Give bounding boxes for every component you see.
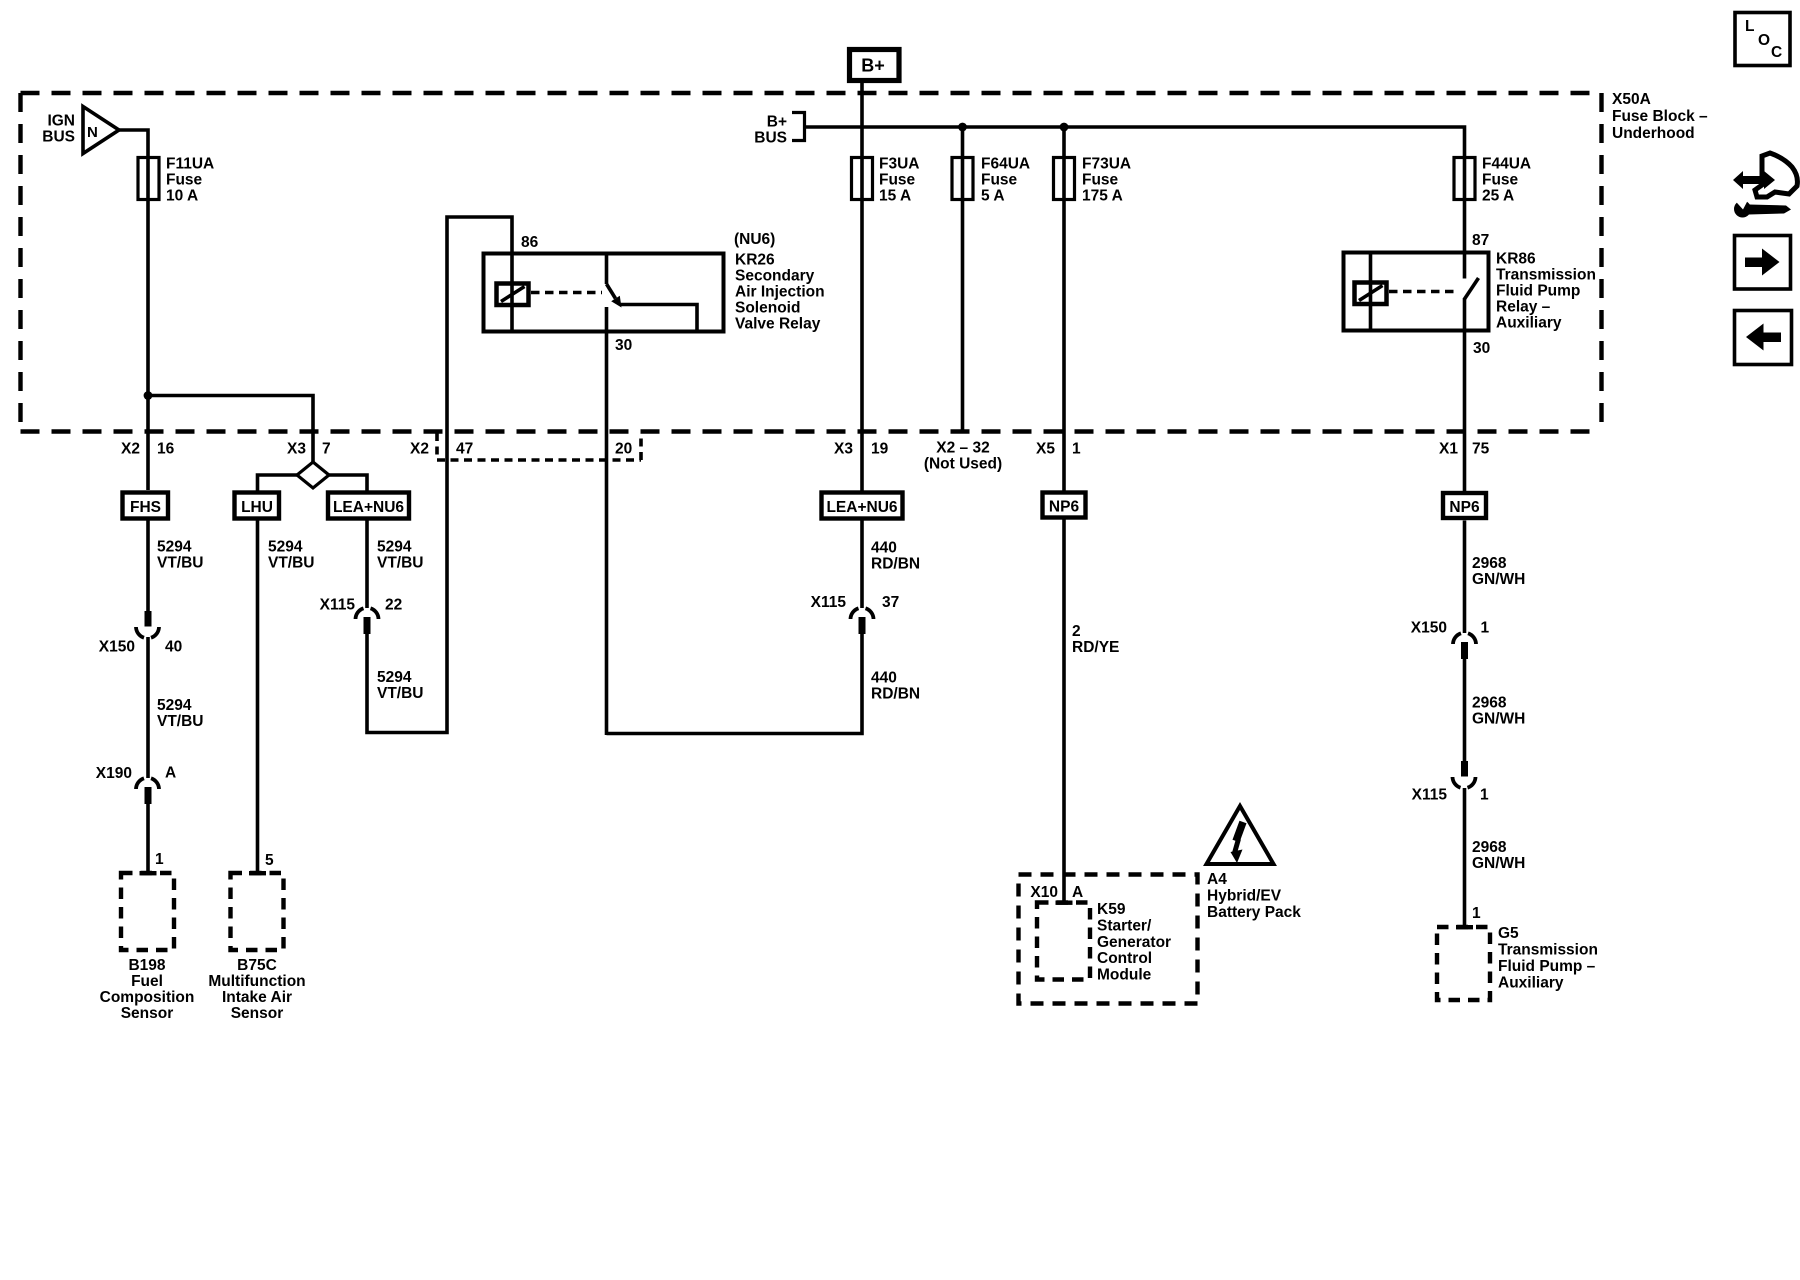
relay KR26 box [484,254,724,332]
inline connector X150-1 [1453,633,1476,644]
svg-text:1: 1 [1481,620,1490,637]
svg-text:Module: Module [1097,967,1152,984]
tools/navigate hand icon [1733,153,1797,218]
svg-text:7: 7 [322,441,331,458]
A4 Hybrid/EV Battery Pack warning triangle [1207,806,1274,864]
svg-text:Intake Air: Intake Air [222,989,292,1006]
IGN BUS connector triangle [83,107,119,154]
svg-text:X5: X5 [1036,441,1055,458]
svg-text:75: 75 [1472,441,1490,458]
svg-text:X3: X3 [287,441,306,458]
svg-text:Control: Control [1097,950,1152,967]
svg-text:B75C: B75C [237,957,277,974]
svg-text:X2: X2 [410,441,429,458]
wire: X115-22 to pin 47 riser to KR26 pin 86 [367,217,512,733]
svg-text:LEA+NU6: LEA+NU6 [333,499,404,516]
svg-text:37: 37 [882,594,899,611]
svg-text:10 A: 10 A [166,188,198,205]
svg-text:X3: X3 [834,441,853,458]
svg-text:30: 30 [1473,340,1490,357]
fuse F64UA [952,158,973,200]
svg-text:X1: X1 [1439,441,1458,458]
svg-text:X190: X190 [96,765,132,782]
svg-text:IGN: IGN [47,113,75,130]
svg-text:Secondary: Secondary [735,268,815,285]
svg-text:2968: 2968 [1472,695,1507,712]
svg-text:Auxiliary: Auxiliary [1496,315,1562,332]
svg-text:X2: X2 [121,441,140,458]
svg-text:Solenoid: Solenoid [735,300,800,317]
wire: diamond to LEA+NU6 [328,475,367,491]
svg-text:O: O [1758,32,1770,49]
svg-text:VT/BU: VT/BU [377,685,424,702]
net box LEA+NU6 II [822,493,903,519]
wire: LEA+NU6 down to X115-22 [365,521,369,609]
svg-text:2: 2 [1072,623,1081,640]
wire: NP6 II to X150-1 [1463,521,1467,634]
svg-text:A: A [1072,884,1083,901]
svg-text:(NU6): (NU6) [734,231,775,248]
svg-text:1: 1 [155,851,164,868]
svg-text:RD/YE: RD/YE [1072,639,1119,656]
KR26 switch [605,254,609,285]
svg-text:F11UA: F11UA [166,156,214,173]
wire: FHS lower runs [146,521,150,613]
svg-text:X115: X115 [1412,787,1448,804]
K59 inner connector dashed box [1037,903,1090,980]
inline connector X115-1 [1461,761,1468,777]
svg-text:5: 5 [265,852,274,869]
svg-text:F64UA: F64UA [981,156,1030,173]
svg-text:GN/WH: GN/WH [1472,855,1525,872]
svg-text:NP6: NP6 [1049,499,1080,516]
svg-text:Underhood: Underhood [1612,125,1695,142]
splice diamond [297,462,329,488]
junction dot F64UA tap [958,123,967,132]
inline connector X150-40 [145,611,152,627]
svg-text:Valve Relay: Valve Relay [735,316,821,333]
svg-text:X10: X10 [1030,884,1058,901]
wire: X150-1 to X115-1 [1463,658,1467,761]
svg-text:Air Injection: Air Injection [735,284,825,301]
svg-text:Transmission: Transmission [1496,267,1596,284]
B+ power box [850,50,900,81]
svg-text:LHU: LHU [241,499,273,516]
KR86 coil pin wire [1369,253,1373,331]
wire: X115-1 to G5 [1463,788,1467,927]
net box LEA+NU6 [328,493,409,519]
KR26 coil [497,284,529,306]
inline connector X115-37 [851,608,874,619]
fuse F44UA [1454,158,1475,200]
svg-text:16: 16 [157,441,175,458]
junction dot F73UA tap [1060,123,1069,132]
svg-text:Composition: Composition [100,989,195,1006]
svg-text:LEA+NU6: LEA+NU6 [826,499,897,516]
svg-text:Fuel: Fuel [131,973,163,990]
svg-text:25 A: 25 A [1482,188,1514,205]
svg-text:C: C [1771,44,1782,61]
K59 module outer dashed box [1019,875,1198,1004]
svg-text:G5: G5 [1498,925,1519,942]
svg-text:RD/BN: RD/BN [871,556,920,573]
svg-text:Fuse: Fuse [981,172,1018,189]
svg-text:5294: 5294 [157,539,192,556]
forward arrow icon box [1735,236,1791,290]
svg-text:X150: X150 [99,639,135,656]
svg-text:VT/BU: VT/BU [268,555,315,572]
fuse F73UA [1054,158,1075,200]
KR86 coil [1355,283,1387,305]
svg-text:B+: B+ [861,56,885,76]
svg-text:KR86: KR86 [1496,251,1536,268]
svg-text:VT/BU: VT/BU [157,713,204,730]
svg-text:2968: 2968 [1472,839,1507,856]
svg-text:F44UA: F44UA [1482,156,1531,173]
wire: B+ bus to F44UA / KR86 pin 87 [805,127,1465,279]
fuse F11UA [138,158,159,200]
svg-text:Fluid Pump: Fluid Pump [1496,283,1580,300]
svg-text:5294: 5294 [157,697,192,714]
net box NP6 [1043,493,1086,518]
wire: KR26 pin 30 down to pin 20 [605,307,609,735]
wire: F73UA branch to NP6/K59 [1062,127,1066,491]
wire: diamond to LHU [258,475,299,491]
svg-text:Starter/: Starter/ [1097,918,1152,935]
wire: F64UA branch (X2-32 not used) [961,127,965,432]
svg-text:Fuse: Fuse [166,172,203,189]
relay KR86 box [1344,253,1489,331]
svg-text:VT/BU: VT/BU [157,555,204,572]
svg-text:5294: 5294 [268,539,303,556]
svg-text:47: 47 [456,441,473,458]
wire: branch to X3-7 and splice diamond [148,396,313,464]
svg-text:B198: B198 [128,957,165,974]
svg-text:GN/WH: GN/WH [1472,711,1525,728]
svg-text:BUS: BUS [42,129,75,146]
svg-text:L: L [1745,18,1754,35]
net box LHU [235,493,280,519]
fuse F3UA [852,158,873,200]
component B198 Fuel Composition Sensor [121,873,174,950]
svg-text:5294: 5294 [377,539,412,556]
svg-text:X115: X115 [811,594,847,611]
inline connector X190-A [136,778,159,789]
svg-text:Generator: Generator [1097,934,1171,951]
net box FHS [123,493,169,519]
svg-text:Fuse: Fuse [1482,172,1519,189]
svg-text:X50A: X50A [1612,91,1651,108]
svg-text:A: A [165,765,176,782]
svg-text:Relay –: Relay – [1496,299,1551,316]
svg-text:Fuse: Fuse [1082,172,1119,189]
B+ BUS bracket [792,113,805,141]
svg-text:X150: X150 [1411,620,1447,637]
svg-text:30: 30 [615,337,632,354]
svg-text:Fluid Pump –: Fluid Pump – [1498,958,1596,975]
svg-text:440: 440 [871,670,897,687]
svg-text:B+: B+ [767,114,787,131]
svg-text:87: 87 [1472,232,1489,249]
svg-text:GN/WH: GN/WH [1472,571,1525,588]
svg-text:X115: X115 [320,597,356,614]
KR26 coil-switch dashed link [531,291,602,295]
svg-text:5 A: 5 A [981,188,1005,205]
svg-text:BUS: BUS [754,130,787,147]
svg-text:Fuse: Fuse [879,172,916,189]
svg-text:15 A: 15 A [879,188,911,205]
svg-text:Auxiliary: Auxiliary [1498,975,1564,992]
svg-text:K59: K59 [1097,901,1126,918]
svg-text:F73UA: F73UA [1082,156,1131,173]
svg-text:N: N [87,124,98,141]
svg-text:86: 86 [521,234,539,251]
svg-text:F3UA: F3UA [879,156,919,173]
wire: KR86 pin 30 to NP6 II [1463,298,1467,492]
fuse block extension around pins 47/20 [437,433,641,460]
svg-text:175 A: 175 A [1082,188,1123,205]
svg-text:Sensor: Sensor [231,1005,284,1022]
component G5 Transmission Fluid Pump Auxiliary [1437,927,1490,1000]
svg-text:1: 1 [1480,787,1489,804]
svg-text:1: 1 [1072,441,1081,458]
svg-text:19: 19 [871,441,889,458]
svg-text:1: 1 [1472,905,1481,922]
svg-text:22: 22 [385,597,402,614]
svg-text:Battery Pack: Battery Pack [1207,904,1301,921]
svg-text:440: 440 [871,540,897,557]
LOC page icon box [1735,13,1790,66]
svg-text:Multifunction: Multifunction [208,973,305,990]
inline connector X115-22 [356,608,379,619]
wire: LHU to B75C sensor [256,521,260,874]
net box NP6 II [1443,493,1486,518]
wire: B+ feed through F3UA to LEA+NU6 [860,82,864,491]
component B75C Multifunction Intake Air Sensor [231,873,284,950]
back arrow icon box [1735,311,1792,365]
svg-text:Hybrid/EV: Hybrid/EV [1207,888,1282,905]
KR86 coil-switch dashed link [1389,290,1456,294]
fuse block X50A dashed border [21,93,1602,432]
svg-text:Sensor: Sensor [121,1005,174,1022]
svg-text:VT/BU: VT/BU [377,555,424,572]
svg-text:FHS: FHS [130,499,161,516]
svg-text:20: 20 [615,441,632,458]
svg-text:A4: A4 [1207,871,1227,888]
svg-text:RD/BN: RD/BN [871,686,920,703]
KR86 switch blade [1465,278,1479,299]
junction node [144,391,153,400]
wire: LEA+NU6 II down to X115-37 [860,521,864,609]
wire: IGN BUS feed to F11UA [119,130,148,490]
svg-text:KR26: KR26 [735,252,775,269]
svg-text:Transmission: Transmission [1498,942,1598,959]
svg-text:X2 – 32: X2 – 32 [936,440,989,457]
svg-text:(Not Used): (Not Used) [924,456,1002,473]
svg-text:Fuse Block –: Fuse Block – [1612,108,1708,125]
svg-text:5294: 5294 [377,669,412,686]
svg-text:2968: 2968 [1472,555,1507,572]
svg-text:40: 40 [165,639,182,656]
svg-text:NP6: NP6 [1449,499,1480,516]
wire: X115-37 to KR26 pin 30/20 [607,634,863,734]
